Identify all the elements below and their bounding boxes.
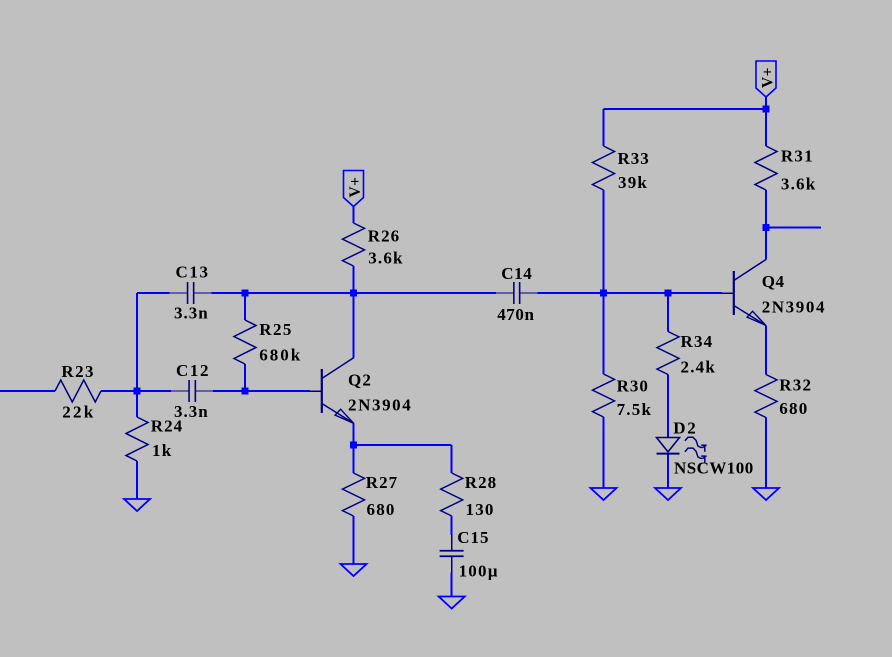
svg-text:C14: C14	[501, 264, 532, 283]
svg-text:R24: R24	[151, 417, 183, 436]
svg-text:680k: 680k	[259, 346, 302, 365]
svg-text:R23: R23	[61, 362, 94, 381]
svg-text:R32: R32	[779, 375, 812, 394]
svg-text:R30: R30	[617, 376, 649, 395]
svg-text:2.4k: 2.4k	[681, 358, 717, 377]
svg-text:Q2: Q2	[348, 371, 372, 390]
svg-text:C15: C15	[457, 528, 489, 547]
svg-text:R31: R31	[781, 147, 814, 166]
svg-text:100µ: 100µ	[459, 561, 499, 580]
svg-text:R25: R25	[259, 320, 292, 339]
svg-text:2N3904: 2N3904	[762, 297, 826, 316]
svg-text:3.6k: 3.6k	[781, 174, 817, 193]
svg-text:R28: R28	[465, 473, 497, 492]
svg-text:R27: R27	[366, 473, 398, 492]
svg-text:3.3n: 3.3n	[174, 303, 209, 322]
svg-text:2N3904: 2N3904	[348, 395, 412, 414]
svg-text:680: 680	[367, 500, 396, 519]
svg-text:680: 680	[779, 399, 808, 418]
svg-text:1k: 1k	[152, 441, 172, 460]
svg-text:C12: C12	[176, 361, 210, 380]
svg-text:NSCW100: NSCW100	[674, 458, 754, 477]
svg-text:R34: R34	[681, 332, 714, 351]
svg-text:R33: R33	[618, 149, 650, 168]
svg-text:Q4: Q4	[762, 272, 785, 291]
svg-text:C13: C13	[176, 263, 210, 282]
svg-text:130: 130	[466, 500, 495, 519]
svg-text:22k: 22k	[62, 402, 95, 421]
svg-text:7.5k: 7.5k	[617, 400, 653, 419]
svg-text:R26: R26	[368, 226, 400, 245]
svg-text:3.6k: 3.6k	[368, 249, 404, 268]
svg-text:V+: V+	[347, 177, 364, 198]
svg-text:V+: V+	[759, 67, 776, 88]
svg-text:39k: 39k	[618, 173, 648, 192]
svg-text:470n: 470n	[497, 305, 534, 324]
svg-text:D2: D2	[673, 418, 697, 437]
